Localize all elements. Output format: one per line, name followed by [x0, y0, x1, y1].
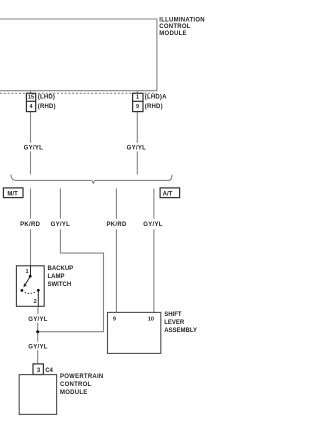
svg-text:MODULE: MODULE: [60, 390, 88, 396]
svg-text:CONTROL: CONTROL: [159, 24, 190, 30]
svg-text:GY/YL: GY/YL: [127, 145, 147, 151]
svg-text:(LHD)A: (LHD)A: [145, 94, 167, 100]
svg-text:GY/YL: GY/YL: [51, 222, 71, 228]
svg-text:SHIFT: SHIFT: [164, 312, 182, 318]
svg-text:GY/YL: GY/YL: [28, 344, 48, 350]
svg-text:(RHD): (RHD): [38, 104, 56, 110]
svg-text:MODULE: MODULE: [159, 31, 187, 37]
svg-text:2: 2: [34, 299, 37, 305]
svg-text:(RHD): (RHD): [145, 104, 163, 110]
svg-text:15: 15: [28, 94, 34, 100]
svg-text:PK/RD: PK/RD: [107, 222, 128, 228]
svg-text:A/T: A/T: [163, 191, 173, 197]
svg-text:M/T: M/T: [7, 191, 18, 197]
svg-text:1: 1: [25, 269, 28, 275]
svg-text:C4: C4: [45, 368, 53, 374]
svg-text:GY/YL: GY/YL: [143, 222, 163, 228]
svg-text:ASSEMBLY: ASSEMBLY: [164, 328, 197, 334]
svg-text:BACKUP: BACKUP: [48, 266, 74, 272]
svg-text:GY/YL: GY/YL: [28, 317, 48, 323]
svg-text:GY/YL: GY/YL: [24, 145, 44, 151]
svg-text:10: 10: [148, 316, 154, 322]
svg-text:CONTROL: CONTROL: [60, 382, 91, 388]
svg-text:POWERTRAIN: POWERTRAIN: [60, 374, 104, 380]
svg-text:SWITCH: SWITCH: [48, 282, 72, 288]
svg-text:ILLUMINATION: ILLUMINATION: [159, 17, 205, 23]
svg-text:LEVER: LEVER: [164, 320, 185, 326]
svg-text:9: 9: [136, 104, 139, 110]
svg-text:1: 1: [136, 94, 139, 100]
svg-text:(LHD): (LHD): [38, 94, 55, 100]
svg-text:LAMP: LAMP: [48, 274, 65, 280]
svg-text:9: 9: [113, 316, 116, 322]
svg-text:PK/RD: PK/RD: [20, 222, 41, 228]
